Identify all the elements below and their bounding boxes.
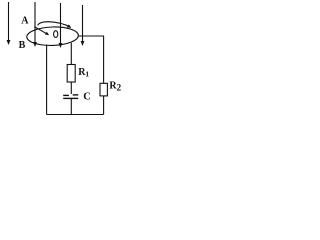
field line 2 arrowhead (33, 42, 37, 47)
resistor R2 box (100, 83, 107, 96)
svg-text:R1: R1 (78, 67, 89, 79)
wire from coil right tip to R2 branch (78, 35, 104, 37)
label O (54, 31, 58, 38)
R2 branch vertical wire (103, 36, 105, 83)
svg-text:B: B (19, 40, 26, 51)
svg-text:C: C (83, 92, 91, 103)
field line 4 arrowhead (81, 41, 85, 46)
field line 3 (60, 3, 62, 44)
capacitor C top plate (split) (63, 94, 69, 96)
field line 1 arrowhead (7, 40, 11, 45)
field line 1 (left B-field line) (8, 2, 10, 41)
rotation axis line with arrowhead (34, 27, 46, 34)
wire R1 to capacitor (70, 82, 72, 94)
resistor R1 box (67, 65, 75, 83)
wire capacitor to bottom (70, 99, 72, 115)
wire R2 to bottom (103, 96, 105, 115)
svg-text:R2: R2 (109, 80, 121, 92)
rotation direction arc arrow (38, 22, 71, 27)
coil loop (ellipse) (27, 26, 79, 46)
field line 4 (82, 5, 84, 42)
field line 3 arrowhead (59, 43, 63, 48)
svg-text:A: A (21, 15, 29, 26)
coil left lead wire (46, 45, 48, 115)
bottom wire (47, 114, 104, 116)
capacitor C bottom plate (63, 97, 78, 99)
field line 2 (34, 2, 36, 43)
coil right lead wire (70, 43, 72, 65)
